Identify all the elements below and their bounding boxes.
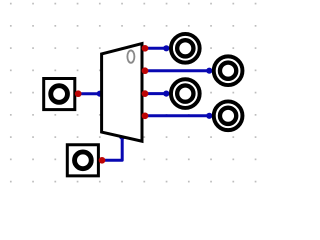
output pin O3: [171, 79, 200, 108]
port dot demux out 2: [142, 90, 149, 97]
port dot demux out 1: [142, 67, 149, 74]
port dot IN2 output: [99, 157, 106, 164]
wire demux out 0 to O1: [145, 45, 170, 51]
input pin IN1 (left): [44, 79, 75, 110]
wire demux out 2 to O3: [145, 91, 170, 97]
wire demux out 3 to O4: [145, 113, 213, 119]
wire demux out 1 to O2: [145, 68, 213, 74]
output pin O1: [171, 34, 200, 63]
port dot IN1 output: [75, 90, 82, 97]
port dot demux out 3: [142, 112, 149, 119]
output pin O2: [214, 56, 243, 85]
demultiplexer U1 body: [102, 44, 142, 142]
port dot demux out 0: [142, 45, 149, 52]
wire select from IN2 to demux bottom: [102, 134, 125, 161]
output pin O4: [214, 101, 243, 130]
input pin IN2 (bottom): [67, 145, 98, 176]
wire from IN1 to demux input: [78, 91, 103, 97]
grid dots: [10, 3, 256, 183]
